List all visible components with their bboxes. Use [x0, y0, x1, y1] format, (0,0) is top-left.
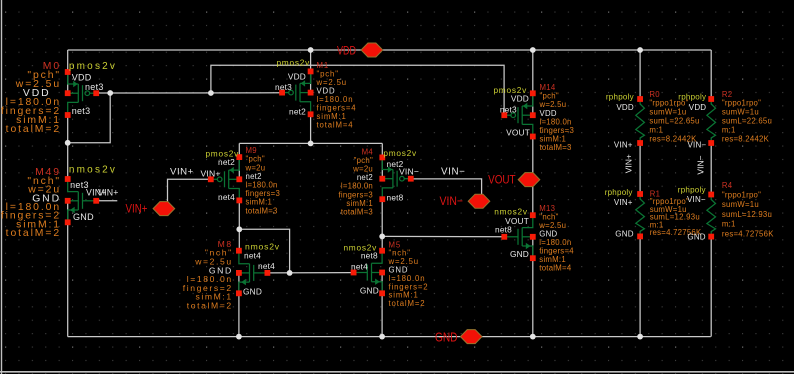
wire net4 M9 drain to M8 drain	[238, 200, 240, 250]
svg-text:"rppo1rpo": "rppo1rpo"	[722, 191, 761, 200]
wire M5 bulk/source to GND	[381, 273, 383, 337]
wire M1 source to rail	[310, 50, 312, 93]
svg-text:totalM=2: totalM=2	[6, 228, 61, 239]
svg-text:GND: GND	[615, 230, 633, 239]
svg-text:res=8.2442K: res=8.2442K	[722, 134, 770, 143]
svg-text:totalM=2: totalM=2	[187, 301, 233, 311]
wire R0 top riser	[639, 50, 641, 99]
svg-text:GND: GND	[73, 212, 94, 222]
wire M8/M5 gate bus	[268, 272, 353, 274]
resistor R1	[636, 195, 645, 235]
svg-text:pmos2v: pmos2v	[276, 58, 310, 68]
wire R1 bottom to GND	[639, 236, 641, 336]
svg-text:VDD: VDD	[616, 103, 634, 112]
wire M4 gate to VIN- port	[411, 179, 482, 198]
node gnd at M13	[530, 334, 536, 340]
svg-text:m:1: m:1	[722, 125, 736, 134]
wire VIN+ port to M9 gate	[168, 179, 210, 201]
wire GND rail	[68, 336, 711, 338]
svg-text:totalM=2: totalM=2	[389, 299, 426, 308]
svg-text:R2: R2	[722, 90, 732, 99]
svg-text:VDD: VDD	[689, 103, 707, 112]
svg-text:GND: GND	[435, 329, 458, 344]
svg-text:VDD: VDD	[72, 73, 92, 83]
svg-text:net4: net4	[258, 261, 275, 271]
svg-text:VIN−: VIN−	[687, 140, 706, 149]
svg-text:VOUT: VOUT	[488, 173, 516, 187]
node rail at M14	[530, 47, 536, 53]
svg-text:sumL=22.65u: sumL=22.65u	[722, 117, 772, 126]
wire net3 M0 drain down	[67, 115, 69, 179]
svg-text:rphpoly: rphpoly	[678, 185, 706, 194]
svg-text:"rppo1rpo": "rppo1rpo"	[722, 99, 761, 108]
nmos M8	[239, 252, 268, 293]
svg-text:totalM=4: totalM=4	[317, 121, 354, 130]
node net3 gate T	[107, 90, 113, 96]
svg-text:GND: GND	[360, 286, 379, 296]
svg-text:VIN−: VIN−	[687, 195, 706, 204]
node net3 left T	[65, 140, 71, 146]
node net8 T	[379, 234, 385, 240]
svg-text:totalM=3: totalM=3	[341, 208, 373, 217]
pmos M9	[211, 158, 240, 199]
svg-text:res=4.72756K: res=4.72756K	[722, 229, 774, 238]
resistor R0	[636, 100, 645, 142]
svg-text:pmos2v: pmos2v	[383, 148, 417, 158]
svg-text:net2: net2	[289, 107, 306, 117]
svg-text:m:1: m:1	[649, 125, 663, 134]
wire M4 source riser	[381, 143, 383, 178]
svg-text:net4: net4	[351, 262, 368, 272]
wire M9 source riser	[238, 143, 240, 179]
port VIN-	[468, 194, 490, 208]
port GND	[460, 330, 482, 344]
svg-text:sumW=1u: sumW=1u	[722, 200, 759, 209]
node net2 tail T	[308, 141, 314, 147]
wire net3 loop down	[68, 93, 111, 143]
svg-text:net3: net3	[72, 106, 91, 116]
svg-text:R0: R0	[649, 90, 660, 99]
svg-text:rphpoly: rphpoly	[678, 93, 706, 102]
node rail at R0	[637, 47, 643, 53]
svg-text:VIN−: VIN−	[440, 194, 464, 208]
svg-text:VIN+: VIN+	[170, 167, 194, 178]
svg-text:net4: net4	[218, 192, 235, 202]
wire net3 over-route to M14 gate	[211, 65, 504, 115]
nmos M13	[504, 216, 533, 257]
nmos M49	[68, 180, 97, 221]
svg-text:VDD: VDD	[337, 43, 356, 57]
svg-text:rphpoly: rphpoly	[606, 93, 634, 102]
nmos M5	[354, 252, 383, 293]
wire M49 gate stub VIN+	[96, 200, 117, 202]
wire M8 bulk/source to GND	[238, 273, 240, 337]
svg-text:totalM=3: totalM=3	[540, 143, 572, 152]
svg-text:VDD: VDD	[288, 72, 306, 82]
svg-text:VIN+: VIN+	[126, 201, 148, 215]
svg-text:sumW=1u: sumW=1u	[649, 108, 686, 117]
node net3 riser T	[208, 90, 214, 96]
wire net4 gate tap	[239, 229, 289, 273]
wire M14 source from rail	[532, 50, 534, 115]
svg-text:rphpoly: rphpoly	[605, 188, 633, 197]
wire R4 bottom to GND	[710, 237, 712, 337]
svg-text:GND: GND	[510, 249, 529, 259]
pmos M1	[282, 72, 311, 113]
svg-text:net3: net3	[275, 82, 292, 92]
wire net8 M4 drain to M5 drain	[381, 199, 383, 251]
node gnd at M8	[236, 334, 242, 340]
pmos M0	[68, 73, 97, 114]
port VDD	[361, 43, 383, 57]
svg-text:VOUT: VOUT	[506, 128, 530, 138]
svg-text:VDD: VDD	[511, 94, 529, 104]
wire R2 top riser	[710, 50, 712, 99]
svg-text:net8: net8	[361, 251, 378, 261]
wire M13 bulk/source to GND	[532, 237, 534, 337]
svg-text:totalM=2: totalM=2	[6, 124, 61, 135]
node net4 T	[236, 226, 242, 232]
wire VIN- R2-R4 link	[710, 143, 712, 195]
svg-text:pmos2v: pmos2v	[69, 61, 117, 72]
node gnd at R1	[637, 334, 643, 340]
svg-text:VIN−: VIN−	[399, 166, 419, 176]
svg-text:net8: net8	[387, 193, 404, 203]
node gate bus T	[287, 270, 293, 276]
wire VIN+ R0-R1 link	[639, 143, 641, 194]
svg-text:sumL=12.93u: sumL=12.93u	[722, 210, 772, 219]
wire net2 tail rail	[239, 142, 382, 144]
svg-text:nmos2v: nmos2v	[69, 165, 117, 176]
svg-text:VIN+: VIN+	[624, 154, 634, 173]
wire M1 drain down	[310, 114, 312, 143]
svg-text:GND: GND	[243, 287, 262, 297]
svg-text:VIN+: VIN+	[201, 168, 221, 178]
port VIN+	[153, 202, 175, 216]
svg-text:m:1: m:1	[722, 220, 736, 229]
svg-text:VIN−: VIN−	[441, 167, 465, 178]
svg-text:R4: R4	[722, 181, 733, 190]
svg-text:net2: net2	[218, 157, 235, 167]
svg-text:VIN+: VIN+	[614, 198, 633, 207]
node rail at M1	[308, 47, 314, 53]
wire net8 to M13 gate	[382, 235, 504, 237]
resistor R2	[707, 100, 716, 142]
pmos M4	[382, 158, 411, 198]
svg-text:VIN−: VIN−	[696, 155, 706, 174]
port VOUT	[518, 173, 540, 187]
svg-text:totalM=4: totalM=4	[539, 264, 572, 273]
svg-text:VIN+: VIN+	[98, 188, 119, 198]
svg-text:totalM=3: totalM=3	[246, 206, 278, 215]
wire VOUT M14 drain to M13 drain	[532, 137, 534, 216]
svg-text:sumL=22.65u: sumL=22.65u	[649, 117, 699, 126]
wire net3 gate bus	[96, 92, 282, 94]
pmos M14	[504, 94, 533, 135]
svg-text:net4: net4	[244, 251, 261, 261]
wire M49 bulk/source to GND	[67, 201, 69, 337]
svg-text:net3: net3	[500, 105, 517, 115]
svg-text:net3: net3	[85, 82, 104, 92]
resistor R4	[707, 196, 716, 236]
node gnd at M5	[379, 334, 385, 340]
svg-text:sumW=1u: sumW=1u	[722, 108, 759, 117]
wire VDD drop to M0 source/bulk	[67, 50, 69, 93]
wire VDD rail	[68, 49, 712, 51]
svg-text:GND: GND	[687, 233, 705, 242]
svg-text:net8: net8	[495, 225, 512, 235]
svg-text:VIN+: VIN+	[614, 140, 633, 149]
